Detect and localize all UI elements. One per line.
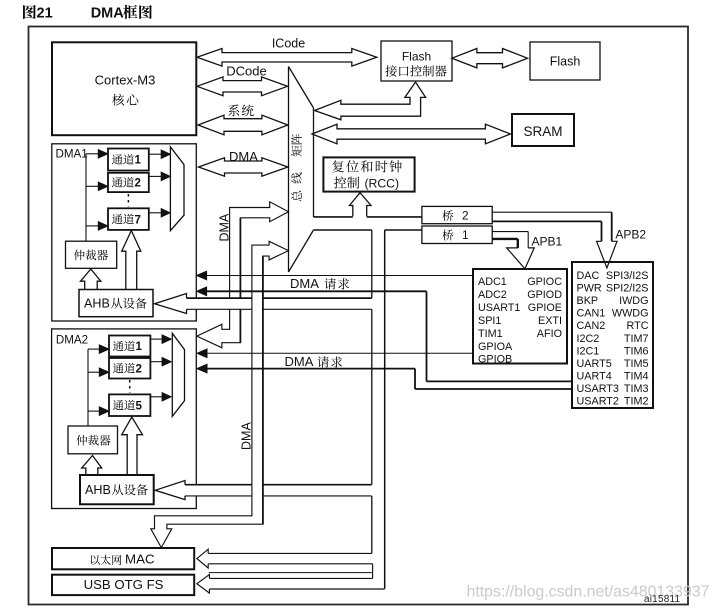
dotted line between DMA2 channels — [129, 380, 131, 393]
svg-text:PWR: PWR — [577, 283, 602, 295]
dotted line between DMA1 channels — [127, 194, 129, 207]
channel box DMA1 通道7 — [108, 208, 149, 230]
block Flash memory — [530, 42, 600, 80]
svg-text:Flash: Flash — [550, 54, 581, 68]
svg-text:ADC2: ADC2 — [478, 289, 507, 301]
svg-text:Flash: Flash — [402, 49, 431, 63]
channel box DMA1 通道2 — [108, 173, 149, 192]
svg-text:SPI2/I2S: SPI2/I2S — [606, 283, 649, 295]
svg-text:DAC: DAC — [577, 270, 600, 282]
mux funnel DMA2 — [172, 333, 184, 416]
wire bus matrix to bridge1 — [314, 229, 372, 231]
svg-text:BKP: BKP — [577, 295, 599, 307]
channel box DMA2 通道2 — [109, 358, 150, 379]
svg-text:RTC: RTC — [627, 320, 649, 332]
wire bus matrix to bridge2 — [314, 216, 353, 218]
svg-text:DMA: DMA — [290, 276, 319, 291]
svg-text:AHB: AHB — [85, 483, 111, 497]
wire DMA1 channels to mux — [149, 153, 161, 155]
wire DMA request line R3 (box1 to DMA2) — [205, 352, 473, 354]
wire DMA request line R1 (box1 to DMA1) — [205, 275, 474, 277]
wire AHB slave to channel7 up-arrow DMA1 — [122, 231, 141, 290]
wire W2 Ethernet MAC master to bus matrix — [151, 241, 289, 547]
wire DMA1 channel input tree — [85, 154, 87, 241]
svg-text:GPIOB: GPIOB — [478, 354, 512, 366]
svg-text:DMA: DMA — [217, 213, 231, 241]
svg-text:I2C1: I2C1 — [577, 345, 600, 357]
svg-text:21: 21 — [37, 5, 53, 21]
wire DMA request line R2 (box2 to DMA1) — [205, 290, 427, 292]
label DMA vertical (W2) — [239, 422, 253, 450]
block bridge2 桥2 — [422, 206, 492, 223]
svg-text:DCode: DCode — [226, 64, 266, 79]
mux funnel DMA1 — [170, 147, 184, 231]
wire AHB slave to arbiter up-arrow DMA1 — [81, 269, 101, 290]
svg-text:USB OTG FS: USB OTG FS — [84, 577, 164, 592]
svg-text:APB2: APB2 — [615, 228, 646, 242]
svg-text:TIM3: TIM3 — [624, 383, 649, 395]
wire fork to USB OTG arrow — [209, 577, 372, 579]
block DMA1 controller — [52, 144, 197, 321]
wire bus matrix to FLITF L-arrow — [315, 82, 426, 120]
svg-text:GPIOD: GPIOD — [527, 289, 562, 301]
bus matrix vertical label 总线矩阵 — [291, 134, 302, 144]
block USB OTG FS — [52, 575, 194, 595]
svg-text:IWDG: IWDG — [619, 295, 648, 307]
svg-text:1: 1 — [462, 228, 469, 242]
wire FLITF-Flash double arrow — [452, 49, 528, 68]
channel box DMA1 通道1 — [108, 149, 149, 171]
svg-text:EXTI: EXTI — [538, 315, 562, 327]
bus matrix 总线矩阵 ribbon shape — [288, 67, 290, 273]
wire bridge2 to APB2 peripherals — [492, 211, 612, 213]
block SRAM — [512, 114, 574, 146]
block AHB slave AHB从设备 DMA1 — [79, 290, 153, 317]
svg-text:GPIOC: GPIOC — [527, 276, 562, 288]
wire thin line above USB arrow — [209, 572, 372, 574]
svg-text:AHB: AHB — [84, 297, 110, 311]
svg-text:DMA1: DMA1 — [56, 147, 88, 160]
block Ethernet MAC 以太网 — [52, 548, 194, 569]
wire W1 DMA2 master to bus matrix (vertical DMA bus) — [197, 202, 289, 348]
svg-text:GPIOE: GPIOE — [528, 302, 562, 314]
title 图21 DMA框图 — [23, 5, 36, 19]
wire AHB slave to arbiter up-arrow DMA2 — [82, 456, 102, 476]
block Cortex-M3 core — [52, 42, 196, 135]
svg-text:SPI3/I2S: SPI3/I2S — [606, 270, 649, 282]
svg-text:DMA: DMA — [239, 422, 253, 450]
svg-text:ADC1: ADC1 — [478, 276, 507, 288]
svg-text:Cortex-M3: Cortex-M3 — [95, 72, 156, 87]
svg-text:UART4: UART4 — [577, 370, 612, 382]
svg-text:DMA: DMA — [285, 354, 314, 369]
wire DMA request line R4 (box2 to DMA2) — [205, 368, 415, 370]
svg-text:2: 2 — [136, 363, 142, 375]
svg-text:2: 2 — [135, 178, 141, 190]
svg-text:7: 7 — [135, 214, 141, 226]
channel box DMA2 通道5 — [109, 394, 150, 416]
svg-text:MAC: MAC — [125, 551, 155, 566]
svg-text:CAN2: CAN2 — [577, 320, 606, 332]
svg-text:TIM5: TIM5 — [624, 358, 649, 370]
svg-text:DMA2: DMA2 — [56, 334, 88, 347]
wire AHB slave to channel5 up-arrow DMA2 — [122, 417, 143, 475]
svg-text:I2C2: I2C2 — [577, 333, 600, 345]
block arbiter 仲裁器 DMA1 — [66, 241, 117, 268]
wire branch B2 to DMA2 AHB slave — [185, 485, 372, 496]
block bridge1 桥1 — [422, 226, 492, 244]
channel box DMA2 通道1 — [109, 336, 150, 357]
svg-text:ai15811: ai15811 — [644, 594, 680, 605]
svg-text:USART3: USART3 — [577, 383, 619, 395]
block reset and clock control RCC — [323, 157, 414, 191]
wire DMA2 channel input tree — [87, 349, 89, 426]
block arbiter 仲裁器 DMA2 — [68, 426, 118, 454]
svg-text:ICode: ICode — [272, 36, 305, 50]
svg-text:USART1: USART1 — [478, 302, 520, 314]
block AHB slave AHB从设备 DMA2 — [80, 475, 154, 504]
svg-text:SPI1: SPI1 — [478, 315, 501, 327]
svg-text:DMA: DMA — [91, 5, 125, 21]
svg-text:TIM7: TIM7 — [624, 333, 649, 345]
block peripheral group box 2 — [572, 262, 653, 408]
block Flash interface controller (FLITF) — [381, 41, 452, 81]
svg-text:2: 2 — [462, 209, 469, 223]
wire V3 AHB system bus pipe — [372, 230, 385, 589]
svg-text:TIM6: TIM6 — [624, 345, 649, 357]
svg-text:SRAM: SRAM — [523, 124, 562, 139]
svg-text:5: 5 — [136, 400, 143, 412]
wire AHB line to RCC up-arrow — [350, 193, 372, 217]
svg-text:UART5: UART5 — [577, 358, 612, 370]
svg-text:CAN1: CAN1 — [577, 308, 606, 320]
wire branch B1 to DMA1 AHB slave — [187, 298, 372, 309]
svg-text:AFIO: AFIO — [537, 328, 562, 340]
svg-text:TIM1: TIM1 — [478, 328, 503, 340]
svg-text:1: 1 — [136, 341, 143, 353]
label DMA vertical (W1) — [217, 213, 231, 241]
wire bus matrix to SRAM double arrow — [312, 124, 510, 144]
svg-text:APB1: APB1 — [532, 235, 563, 249]
wire DMA2 channels to mux — [150, 338, 162, 340]
wire system bus double arrow 系统 — [228, 105, 239, 117]
svg-text:USART2: USART2 — [577, 396, 619, 408]
wire fork to Ethernet MAC arrow — [208, 552, 372, 554]
block DMA2 controller — [52, 329, 197, 509]
svg-text:WWDG: WWDG — [612, 308, 649, 320]
svg-text:TIM4: TIM4 — [624, 370, 649, 382]
svg-text:GPIOA: GPIOA — [478, 341, 513, 353]
svg-text:1: 1 — [135, 155, 142, 167]
svg-text:TIM2: TIM2 — [624, 396, 649, 408]
wire bridge1 to APB1 peripherals — [492, 231, 528, 233]
block peripheral group box 1 — [473, 269, 567, 364]
svg-text:(RCC): (RCC) — [365, 176, 400, 190]
